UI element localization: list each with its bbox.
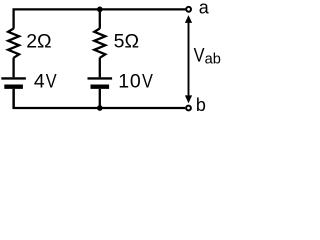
node junction dot top (middle branch meets top wire) [97, 7, 103, 13]
wire middle branch top stub [99, 9, 101, 28]
svg-text:10: 10 [118, 70, 141, 92]
terminal b (open circle) [186, 106, 191, 111]
terminal a (open circle) [186, 7, 191, 12]
svg-text:2Ω: 2Ω [26, 30, 51, 52]
wire middle branch between resistor and battery [99, 58, 101, 78]
svg-text:V: V [46, 70, 57, 92]
svg-text:a: a [199, 0, 210, 17]
wire bottom: from bottom-left corner to terminal b [14, 89, 186, 108]
battery V1 4V negative plate (short thick) [4, 84, 23, 88]
voltage arrow head down (toward b) [185, 95, 192, 103]
resistor R1 2Ω (left branch zigzag) [8, 29, 19, 58]
wire top: from top-left corner to terminal a [14, 9, 186, 28]
svg-text:V: V [194, 44, 205, 66]
svg-text:5Ω: 5Ω [114, 30, 139, 52]
wire left branch between resistor and battery [12, 58, 14, 78]
svg-text:ab: ab [205, 52, 221, 68]
node junction dot bottom (middle branch meets bottom wire) [97, 105, 103, 111]
wire left branch battery to bottom wire [12, 89, 14, 108]
voltage arrow head up (toward a) [185, 15, 192, 23]
svg-text:b: b [196, 95, 206, 115]
battery V2 10V positive plate (long thin) [88, 77, 113, 79]
voltage arrow Vab shaft [188, 20, 190, 98]
wire middle branch battery to bottom wire [99, 89, 101, 108]
resistor R2 5Ω (middle branch zigzag) [94, 29, 105, 58]
battery V1 4V positive plate (long thin) [1, 77, 26, 79]
svg-text:4: 4 [34, 70, 45, 92]
battery V2 10V negative plate (short thick) [91, 84, 110, 88]
svg-text:V: V [142, 70, 153, 92]
